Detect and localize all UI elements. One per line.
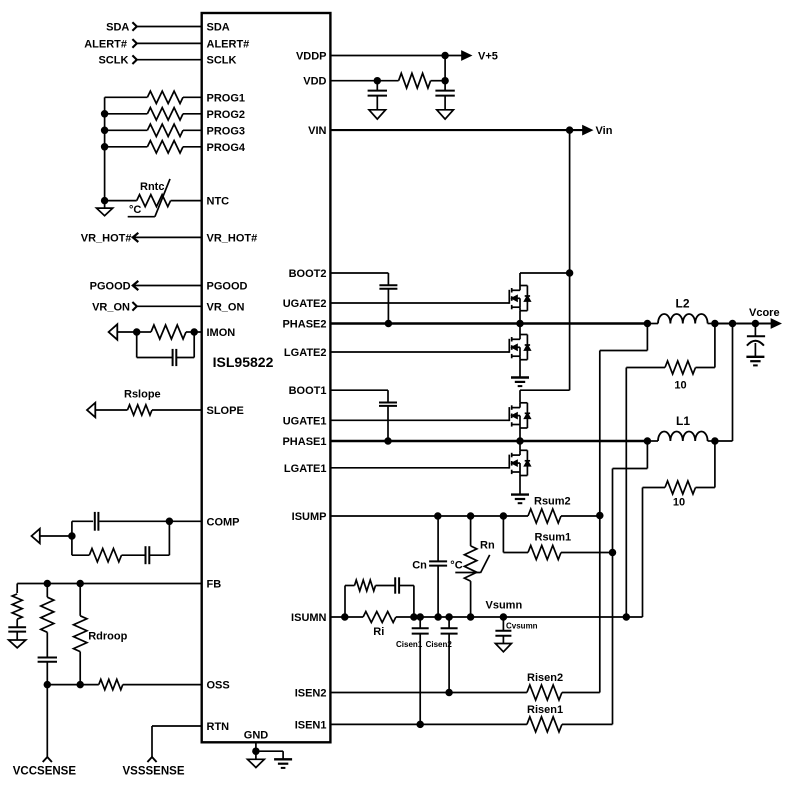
wire Q1 drain xyxy=(520,273,570,286)
junction PROG bus y130 xyxy=(102,127,108,133)
svg-text:Cisen1: Cisen1 xyxy=(396,640,423,649)
svg-text:PROG4: PROG4 xyxy=(207,142,246,154)
ground PROG bus xyxy=(97,201,113,216)
svg-text:COMP: COMP xyxy=(207,516,240,528)
resistor Rprog4 xyxy=(105,141,202,153)
svg-text:SCLK: SCLK xyxy=(98,55,128,67)
ground Q4 source xyxy=(511,493,529,495)
wire LGATE1 xyxy=(330,467,509,469)
svg-text:PROG1: PROG1 xyxy=(207,92,246,104)
resistor Ri xyxy=(363,612,396,623)
junction Ri right xyxy=(411,614,417,620)
svg-text:GND: GND xyxy=(244,730,269,742)
svg-text:ISEN1: ISEN1 xyxy=(295,719,327,731)
svg-text:VR_HOT#: VR_HOT# xyxy=(207,232,258,244)
ground Q2 source xyxy=(511,376,529,378)
wire FB pin xyxy=(17,583,202,585)
svg-text:LGATE1: LGATE1 xyxy=(284,463,327,475)
wire LGATE2 xyxy=(330,351,509,353)
svg-text:LGATE2: LGATE2 xyxy=(284,347,327,359)
wire ISEN1 pin xyxy=(330,723,527,725)
wire COMP pin xyxy=(169,520,201,522)
wire Q3 drain xyxy=(520,390,570,403)
capacitor Cvdd2 xyxy=(435,81,454,110)
svg-text:Vin: Vin xyxy=(596,125,613,137)
wire Q4 source xyxy=(519,476,521,495)
svg-text:Rsum2: Rsum2 xyxy=(534,496,571,508)
wire BOOT2 xyxy=(330,272,388,274)
wire COMP right vertical xyxy=(168,521,170,555)
junction IMON left xyxy=(134,329,140,335)
capacitor Cn xyxy=(429,516,447,617)
wire VIN pin xyxy=(330,129,586,131)
junction IMON right xyxy=(191,329,197,335)
svg-text:OSS: OSS xyxy=(207,680,230,692)
svg-text:PHASE2: PHASE2 xyxy=(282,319,326,331)
transistor Q4 lowside ph1 xyxy=(509,450,530,475)
svg-text:Rsum1: Rsum1 xyxy=(535,532,572,544)
svg-text:10: 10 xyxy=(674,380,686,392)
capacitor Cvcore xyxy=(747,324,765,357)
output connector arrow PGOOD xyxy=(133,281,139,290)
svg-text:VR_ON: VR_ON xyxy=(92,301,130,313)
wire UGATE1 xyxy=(330,419,509,421)
wire Q2 source xyxy=(519,360,521,378)
wire ISUMP pin xyxy=(330,515,528,517)
junction OSS VCCSENSE xyxy=(44,682,50,688)
resistor Rimon xyxy=(137,325,195,339)
resistor Rslope xyxy=(95,405,201,415)
junction ISUMN pin xyxy=(342,614,348,620)
wire PHASE2 sense jog xyxy=(600,324,648,516)
wire ALERT# to pin xyxy=(137,42,202,44)
capacitor FB branch B xyxy=(38,632,57,684)
svg-text:SDA: SDA xyxy=(106,22,129,34)
junction PROG bus y146 xyxy=(102,144,108,150)
wire PHASE1 sense jog xyxy=(613,441,648,553)
capacitor Cisen2 xyxy=(441,617,458,693)
junction PHASE1 L1 xyxy=(645,438,651,444)
svg-text:Cisen2: Cisen2 xyxy=(426,640,453,649)
IC U1 ISL95822 body xyxy=(202,13,331,742)
resistor Rprog1 xyxy=(105,91,202,103)
capacitor Ccomp1 top branch xyxy=(72,512,169,531)
junction OSS Rdroop xyxy=(77,682,83,688)
junction COMP xyxy=(167,518,173,524)
wire VDD pin xyxy=(330,80,398,82)
junction ISUMP Cn xyxy=(435,513,441,519)
wire COMP arrow stub xyxy=(40,535,72,537)
junction ISEN2 Cisen2 xyxy=(446,690,452,696)
svg-text:UGATE2: UGATE2 xyxy=(283,298,327,310)
wire VIN vertical xyxy=(569,130,571,390)
junction Vcore L1riser xyxy=(730,321,736,327)
svg-text:FB: FB xyxy=(207,579,222,591)
junction PROG bus NTC xyxy=(102,198,108,204)
junction PHASE2 L2 xyxy=(645,321,651,327)
wire R10 bottom to Vsumn xyxy=(642,488,644,618)
resistor Risen1 xyxy=(527,717,613,732)
junction VIN drain2 xyxy=(567,270,573,276)
junction L2 out xyxy=(712,321,718,327)
svg-text:V+5: V+5 xyxy=(478,51,498,63)
junction Vcore cap xyxy=(753,321,759,327)
connector arrow COMP xyxy=(32,529,40,544)
wire COMP left vertical xyxy=(71,521,73,555)
svg-text:Risen2: Risen2 xyxy=(527,672,563,684)
wire R10 top to Vsumn xyxy=(625,368,627,618)
resistor Rdroop xyxy=(74,584,87,685)
ground Cvdd1 xyxy=(369,110,386,119)
resistor Rsum2 xyxy=(528,509,600,523)
wire VR_ON xyxy=(137,305,202,307)
wire ISUMN Vsumn xyxy=(330,616,642,618)
input connector chevron SCLK xyxy=(132,55,136,64)
thermistor Rn xyxy=(455,516,489,617)
wire Vcore rail xyxy=(715,322,774,324)
junction R10top Vsumn xyxy=(623,614,629,620)
junction Cisen2 top xyxy=(446,614,452,620)
svg-text:Ri: Ri xyxy=(373,626,384,638)
junction Cn bottom xyxy=(435,614,441,620)
svg-text:ISUMP: ISUMP xyxy=(292,511,327,523)
svg-text:PROG2: PROG2 xyxy=(207,109,246,121)
wire Rsum1 to Risen1 xyxy=(612,553,614,725)
arrow Vcore xyxy=(772,320,781,328)
svg-text:ISUMN: ISUMN xyxy=(291,612,327,624)
capacitor Cimon branch xyxy=(137,332,195,366)
svg-text:VR_HOT#: VR_HOT# xyxy=(81,232,132,244)
wire IMON node to pin xyxy=(194,331,202,333)
svg-text:L2: L2 xyxy=(675,297,689,311)
wire VDDP xyxy=(330,55,463,57)
resistor Rcomp bottom branch xyxy=(72,549,122,562)
svg-text:Cn: Cn xyxy=(412,559,427,571)
svg-text:L1: L1 xyxy=(676,414,690,428)
svg-text:VR_ON: VR_ON xyxy=(207,301,245,313)
ground Cvdd2 xyxy=(437,110,454,119)
wire Q3 source to PHASE1 xyxy=(519,428,521,441)
junction VDD right xyxy=(442,78,448,84)
resistor and capacitor Ri parallel branch xyxy=(345,577,414,617)
junction PROG bus y113 xyxy=(102,111,108,117)
junction Cisen1 top xyxy=(417,614,423,620)
svg-text:10: 10 xyxy=(673,497,685,509)
junction Rn bottom xyxy=(468,614,474,620)
transistor Q2 lowside ph2 xyxy=(509,335,530,360)
svg-text:Rntc: Rntc xyxy=(140,181,164,193)
wire VCCSENSE xyxy=(46,685,48,758)
connector chevron VCCSENSE xyxy=(43,757,52,762)
resistor R10 bottom xyxy=(643,441,715,494)
resistor Risen2 xyxy=(527,685,600,700)
junction VIN xyxy=(567,127,573,133)
resistor R10 top xyxy=(626,324,715,375)
input connector chevron VR_ON xyxy=(132,302,136,311)
svg-text:BOOT2: BOOT2 xyxy=(289,268,327,280)
junction Rsum2 right xyxy=(597,513,603,519)
wire SCLK to pin xyxy=(137,59,202,61)
resistor Rvdd xyxy=(399,73,446,88)
svg-text:VDDP: VDDP xyxy=(296,51,327,63)
wire Q4 drain xyxy=(519,441,521,450)
capacitor Ccomp2 bottom branch xyxy=(122,546,170,564)
resistor Rprog3 xyxy=(105,124,202,136)
junction VDDP xyxy=(442,53,448,59)
svg-text:VCCSENSE: VCCSENSE xyxy=(13,766,77,778)
junction ISUMP Rn xyxy=(468,513,474,519)
svg-text:PROG3: PROG3 xyxy=(207,125,246,137)
wire L1 to Vcore xyxy=(715,324,733,442)
ground GND triangle xyxy=(248,759,265,767)
wire GND to earth xyxy=(256,751,283,759)
arrow V+5 xyxy=(462,52,471,60)
transistor Q3 highside ph1 xyxy=(509,403,530,428)
connector chevron VSSSENSE xyxy=(147,757,156,762)
resistor Rprog2 xyxy=(105,108,202,120)
resistor Rsum1 xyxy=(503,516,612,560)
wire Q2 drain xyxy=(519,324,521,335)
wire IMON arrow to node xyxy=(117,331,136,333)
junction FB c xyxy=(77,581,83,587)
svg-text:PGOOD: PGOOD xyxy=(207,281,248,293)
svg-text:IMON: IMON xyxy=(207,327,236,339)
junction ISUMP Rsum1 xyxy=(501,513,507,519)
svg-text:ALERT#: ALERT# xyxy=(207,38,250,50)
ground GND earth xyxy=(274,758,292,760)
svg-text:PHASE1: PHASE1 xyxy=(282,436,326,448)
wire RTN xyxy=(152,726,202,757)
svg-text:Vsumn: Vsumn xyxy=(486,600,523,612)
junction Cboot2 PHASE2 xyxy=(386,321,392,327)
junction COMP arrow xyxy=(69,533,75,539)
junction GND xyxy=(253,748,259,754)
svg-text:ISL95822: ISL95822 xyxy=(213,354,274,370)
capacitor FB branch A xyxy=(8,619,26,640)
svg-text:Risen1: Risen1 xyxy=(527,704,563,716)
wire Q1 source to PHASE2 xyxy=(519,311,521,324)
ground Cvcore xyxy=(746,356,764,358)
resistor FB branch B xyxy=(41,584,54,633)
resistor FB branch A xyxy=(12,584,22,620)
svg-text:Vcore: Vcore xyxy=(749,307,780,319)
svg-text:Rdroop: Rdroop xyxy=(88,631,127,643)
svg-text:°C: °C xyxy=(450,559,462,571)
transistor Q1 highside ph2 xyxy=(509,286,530,311)
junction Cvsumn top xyxy=(501,614,507,620)
capacitor Cboot2 xyxy=(379,273,397,324)
wire ISEN2 pin xyxy=(330,692,527,694)
junction ISEN1 Cisen1 xyxy=(417,722,423,728)
svg-text:VSSSENSE: VSSSENSE xyxy=(123,766,185,778)
svg-text:SDA: SDA xyxy=(207,22,230,34)
input connector chevron SDA xyxy=(132,22,136,31)
wire UGATE2 xyxy=(330,302,509,304)
svg-text:Rn: Rn xyxy=(480,540,495,552)
wire PGOOD xyxy=(133,285,202,287)
wire PHASE1 xyxy=(330,440,647,443)
svg-text:UGATE1: UGATE1 xyxy=(283,415,327,427)
svg-text:SCLK: SCLK xyxy=(207,55,237,67)
capacitor Cisen1 xyxy=(412,617,429,724)
thermistor Rntc xyxy=(105,179,202,217)
junction FB b xyxy=(44,581,50,587)
wire VR_HOT# xyxy=(133,236,202,238)
inductor L2 xyxy=(647,314,715,324)
svg-text:°C: °C xyxy=(129,204,141,216)
connector arrow SLOPE xyxy=(87,403,95,418)
svg-text:PGOOD: PGOOD xyxy=(90,281,131,293)
svg-text:NTC: NTC xyxy=(207,196,230,208)
svg-text:Cvsumn: Cvsumn xyxy=(506,622,538,631)
wire PHASE2 xyxy=(330,322,647,325)
svg-text:ISEN2: ISEN2 xyxy=(295,688,327,700)
svg-text:ALERT#: ALERT# xyxy=(84,38,127,50)
wire Rsum2 to Risen2 xyxy=(599,516,601,693)
ground FB branch A xyxy=(9,640,26,648)
wire SDA to pin xyxy=(137,26,202,28)
svg-text:RTN: RTN xyxy=(207,721,230,733)
junction L1 out xyxy=(712,438,718,444)
wire GND stub xyxy=(255,742,257,759)
junction Rsum1 right xyxy=(610,550,616,556)
svg-text:VDD: VDD xyxy=(303,76,326,88)
capacitor Cvsumn xyxy=(495,617,511,644)
connector arrow IMON xyxy=(109,324,118,339)
input connector chevron ALERT# xyxy=(132,39,136,48)
svg-text:SLOPE: SLOPE xyxy=(207,405,244,417)
junction PHASE2 FET xyxy=(517,321,523,327)
junction VDD left xyxy=(374,78,380,84)
junction Cboot1 PHASE1 xyxy=(385,438,391,444)
svg-text:BOOT1: BOOT1 xyxy=(289,385,327,397)
junction PHASE1 FET xyxy=(517,438,523,444)
svg-text:VIN: VIN xyxy=(308,125,326,137)
capacitor Cboot1 xyxy=(379,390,397,441)
arrow Vin xyxy=(583,126,592,134)
resistor Ross xyxy=(47,679,201,689)
capacitor Cvdd1 xyxy=(368,81,387,110)
inductor L1 xyxy=(647,431,715,441)
wire BOOT1 xyxy=(330,389,388,391)
svg-text:Rslope: Rslope xyxy=(124,389,161,401)
wire PROG bus vertical xyxy=(104,97,106,200)
output connector arrow VR_HOT# xyxy=(133,233,139,242)
wire VDD riser xyxy=(444,56,446,81)
ground Cvsumn xyxy=(495,644,511,652)
